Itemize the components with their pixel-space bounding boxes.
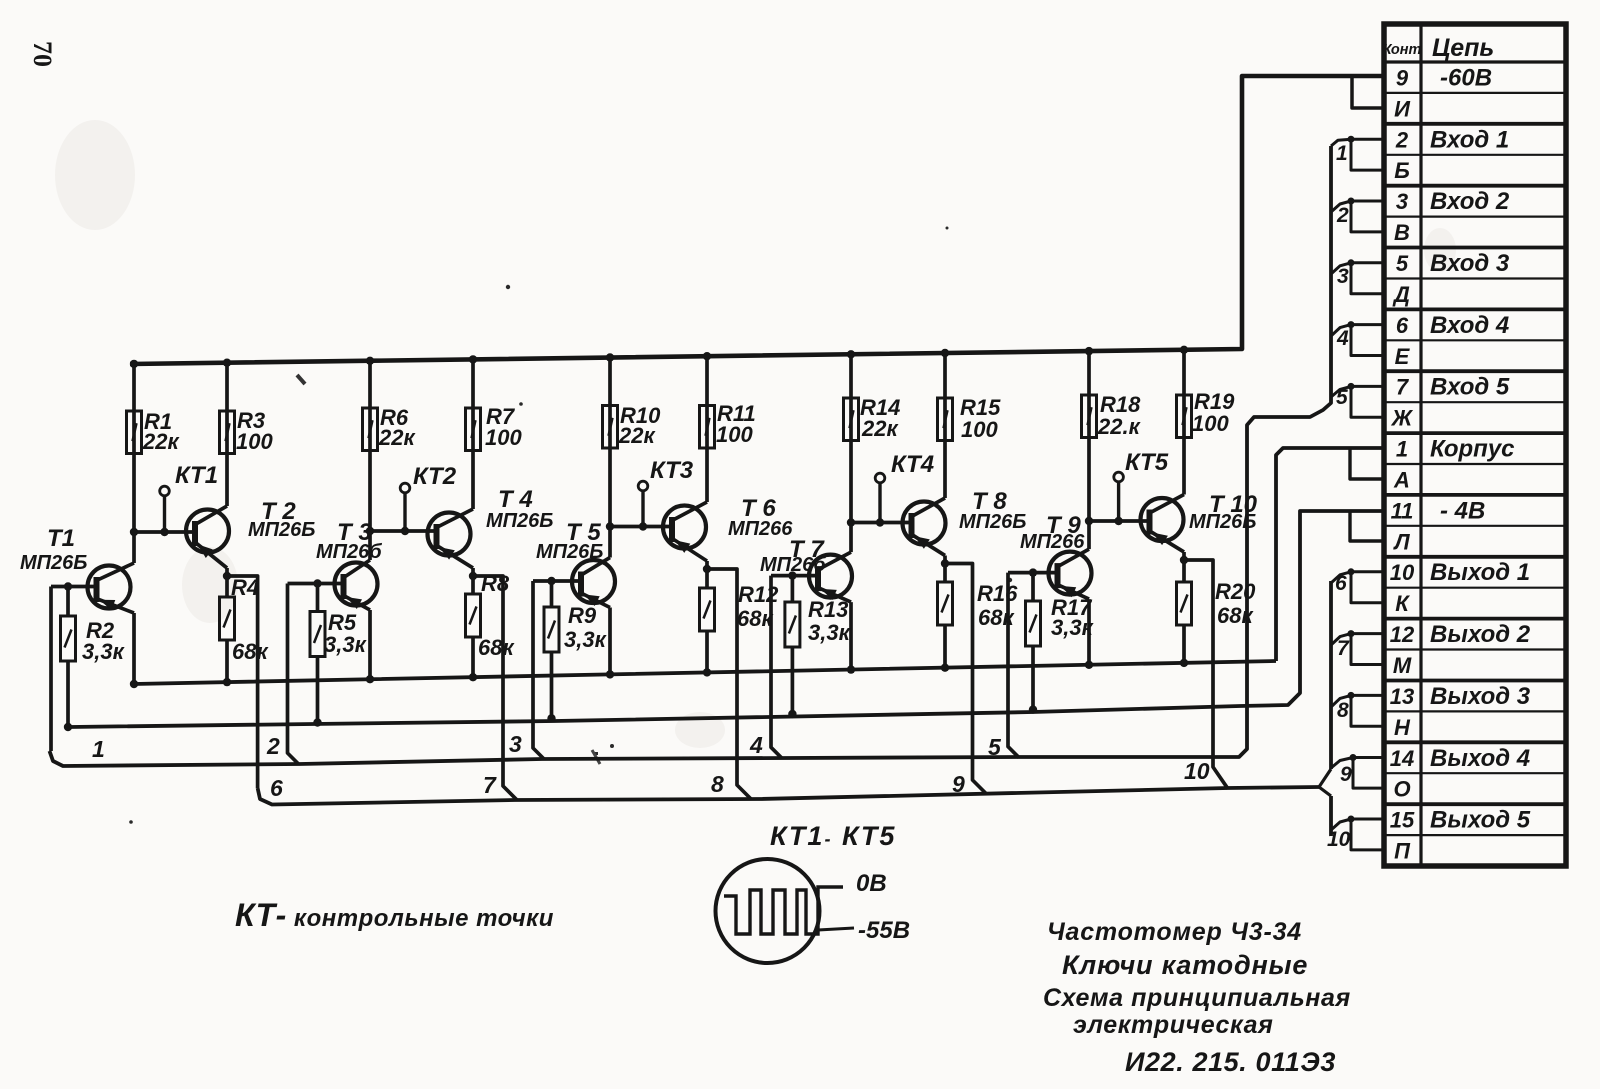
bracket pins pair 9 xyxy=(1353,756,1384,759)
node dot Т3 emitter / emitter bus xyxy=(366,675,374,683)
wire input 1 drop xyxy=(49,587,53,752)
transistor Т2 МП26Б xyxy=(186,510,229,553)
wire hook 10 to connector xyxy=(1331,819,1351,830)
svg-text:22к: 22к xyxy=(378,425,416,450)
node dot R17 / bias bus xyxy=(1029,705,1037,713)
transistor Т6 МП26Б xyxy=(663,506,706,549)
table row line xyxy=(1384,587,1566,589)
svg-text:68к: 68к xyxy=(478,635,515,660)
node dot R/base Т2 xyxy=(130,528,138,536)
scan artifacts (not labeled further) xyxy=(55,120,1456,748)
table row line xyxy=(1384,184,1566,188)
svg-text:8: 8 xyxy=(1337,699,1349,722)
wire hook 7 to connector xyxy=(1331,634,1351,645)
svg-text:14: 14 xyxy=(1390,746,1414,771)
resistor R19 100 xyxy=(1182,350,1186,495)
node dot flag 8 xyxy=(1348,692,1355,699)
svg-text:В: В xyxy=(1394,220,1410,245)
transistor Т8 МП26Б xyxy=(903,502,946,545)
node dot bus/R10 xyxy=(606,353,614,361)
svg-text:Выход 5: Выход 5 xyxy=(1430,807,1531,834)
connector table frame xyxy=(1384,24,1566,866)
svg-text:10: 10 xyxy=(1184,758,1210,784)
svg-text:22к: 22к xyxy=(861,416,899,441)
svg-text:Л: Л xyxy=(1392,529,1410,554)
fan-out triangle xyxy=(1319,769,1331,796)
svg-text:68к: 68к xyxy=(232,639,269,664)
wire -60V to pin I xyxy=(1352,76,1384,108)
svg-text:10: 10 xyxy=(1327,828,1351,851)
svg-text:М: М xyxy=(1393,653,1412,678)
svg-text:МП266: МП266 xyxy=(1020,531,1085,553)
wire hook 5 to connector xyxy=(1331,386,1351,397)
svg-text:МП26Б: МП26Б xyxy=(959,511,1026,533)
node dot Т8 emitter junction xyxy=(941,559,949,567)
svg-text:1: 1 xyxy=(1396,437,1408,462)
node dot Т7 emitter / emitter bus xyxy=(847,665,855,673)
svg-text:3,3к: 3,3к xyxy=(324,632,368,657)
wire output 4 branch xyxy=(945,564,987,795)
wire output 2 branch xyxy=(473,576,517,800)
wire output 3 branch xyxy=(707,569,751,799)
node dot R/base Т4 xyxy=(366,527,374,535)
node dot flag 2 xyxy=(1348,198,1355,205)
svg-text:6: 6 xyxy=(270,775,283,801)
svg-text:1: 1 xyxy=(1336,142,1348,165)
svg-text:5: 5 xyxy=(1336,386,1348,409)
table row line xyxy=(1384,154,1566,156)
svg-text:КТ5: КТ5 xyxy=(1125,449,1169,476)
wire input 4 drop xyxy=(771,576,782,759)
bracket pins pair 1 xyxy=(1351,138,1384,141)
wire bias bus to -4V xyxy=(70,511,1384,727)
bracket pins pair 3 xyxy=(1351,261,1384,264)
svg-text:7: 7 xyxy=(483,772,497,798)
svg-text:7: 7 xyxy=(1337,637,1350,660)
bracket pins pair 10 xyxy=(1351,818,1384,821)
svg-text:70: 70 xyxy=(28,41,57,67)
wire output riser xyxy=(1329,581,1333,769)
node dot Т4 emitter junction xyxy=(469,572,477,580)
wire base lead Т2 xyxy=(134,530,195,534)
svg-text:3: 3 xyxy=(509,731,522,757)
table row line xyxy=(1384,277,1566,279)
svg-text:Схема принципиальная: Схема принципиальная xyxy=(1043,984,1351,1012)
svg-text:Выход 2: Выход 2 xyxy=(1430,621,1531,648)
bracket pins pair 5 xyxy=(1351,385,1384,388)
svg-text:И22. 215. 011Э3: И22. 215. 011Э3 xyxy=(1125,1047,1336,1077)
svg-text:100: 100 xyxy=(961,417,998,442)
svg-text:Т 4: Т 4 xyxy=(498,486,533,513)
svg-text:1: 1 xyxy=(92,736,105,762)
transistor Т1 МП26Б xyxy=(88,566,131,609)
table row line xyxy=(1384,617,1566,621)
test point КТ3 xyxy=(641,491,644,527)
svg-text:68к: 68к xyxy=(978,605,1015,630)
svg-text:15: 15 xyxy=(1390,808,1415,833)
table row line xyxy=(1384,216,1566,218)
table row line xyxy=(1384,463,1566,465)
bracket pins pair 4 xyxy=(1351,323,1384,326)
wire base line Т7 xyxy=(771,574,818,578)
svg-text:Конт: Конт xyxy=(1383,42,1422,58)
svg-text:100: 100 xyxy=(236,429,273,454)
svg-text:10: 10 xyxy=(1390,560,1415,585)
node dot bus/R11 xyxy=(703,352,711,360)
svg-text:68к: 68к xyxy=(737,606,774,631)
svg-text:22к: 22к xyxy=(618,423,656,448)
transistor Т9 МП26Б xyxy=(1049,552,1092,595)
svg-text:7: 7 xyxy=(1396,375,1410,400)
resistor R1 22к xyxy=(132,364,136,532)
svg-text:8: 8 xyxy=(711,771,724,797)
test point КТ2 xyxy=(403,493,406,531)
table row line xyxy=(1384,710,1566,712)
resistor R4 68к xyxy=(225,576,229,597)
node dot R2 / bias bus xyxy=(64,723,72,731)
svg-text:100: 100 xyxy=(1192,411,1229,436)
svg-text:КТ3: КТ3 xyxy=(650,457,694,484)
wire base lead Т6 xyxy=(610,525,672,529)
wire base line Т3 xyxy=(288,582,344,586)
node dot Т9 emitter / emitter bus xyxy=(1085,661,1093,669)
svg-text:О: О xyxy=(1393,777,1410,802)
node dot flag 4 xyxy=(1348,321,1355,328)
svg-text:R20: R20 xyxy=(1215,579,1256,604)
node dot flag 1 xyxy=(1348,136,1355,143)
svg-text:6: 6 xyxy=(1396,313,1409,338)
svg-text:Вход 1: Вход 1 xyxy=(1430,126,1509,153)
resistor R12 68к xyxy=(705,569,709,588)
svg-text:3,3к: 3,3к xyxy=(564,627,608,652)
svg-text:22.к: 22.к xyxy=(1097,414,1142,439)
svg-text:КТ1: КТ1 xyxy=(175,462,218,489)
node dot R16 / emitter bus xyxy=(941,664,949,672)
svg-text:100: 100 xyxy=(485,425,522,450)
svg-text:Е: Е xyxy=(1395,344,1411,369)
test point КТ1 xyxy=(163,496,166,532)
node dot flag 5 xyxy=(1348,383,1355,390)
svg-text:3,3к: 3,3к xyxy=(1051,615,1095,640)
svg-text:22к: 22к xyxy=(142,429,180,454)
svg-text:5: 5 xyxy=(1396,251,1409,276)
table row line xyxy=(1384,802,1566,806)
svg-text:Ж: Ж xyxy=(1391,406,1414,431)
svg-text:4: 4 xyxy=(749,732,763,758)
svg-text:Выход 4: Выход 4 xyxy=(1430,745,1530,772)
node dot R/base Т6 xyxy=(606,522,614,530)
wire hook 4 to connector xyxy=(1331,325,1351,336)
svg-text:-60В: -60В xyxy=(1440,65,1492,92)
svg-text:А: А xyxy=(1393,468,1410,493)
svg-text:3,3к: 3,3к xyxy=(808,620,852,645)
svg-text:12: 12 xyxy=(1390,622,1415,647)
svg-text:R16: R16 xyxy=(977,581,1018,606)
wire input 2 drop xyxy=(288,584,299,765)
transistor Т4 МП26Б xyxy=(428,513,471,556)
wire input 3 drop xyxy=(533,581,544,759)
node dot R20 / emitter bus xyxy=(1180,659,1188,667)
wire input trunk (линия групповой связи 1-5) xyxy=(50,146,1332,766)
node dot bus/R18 xyxy=(1085,347,1093,355)
node dot flag 6 xyxy=(1348,568,1355,575)
transistor Т3 МП26Б xyxy=(335,563,378,606)
svg-text:И: И xyxy=(1394,96,1411,121)
svg-text:6: 6 xyxy=(1335,572,1347,595)
node dot R/base Т10 xyxy=(1085,517,1093,525)
svg-text:9: 9 xyxy=(1340,763,1352,786)
table row line xyxy=(1384,401,1566,403)
wire hook 3 to connector xyxy=(1331,263,1351,274)
node dot bus/R15 xyxy=(941,349,949,357)
svg-text:Д: Д xyxy=(1392,282,1410,307)
node dot Т5 emitter / emitter bus xyxy=(606,670,614,678)
node dot flag 3 xyxy=(1348,259,1355,266)
svg-text:МП266: МП266 xyxy=(728,518,793,540)
svg-text:0В: 0В xyxy=(856,870,887,897)
svg-text:2: 2 xyxy=(1336,204,1349,227)
table row line xyxy=(1384,493,1566,497)
resistor R3 100 xyxy=(225,363,229,506)
node dot flag 7 xyxy=(1348,630,1355,637)
node dot flag 10 xyxy=(1348,816,1355,823)
resistor R10 22к xyxy=(608,358,612,527)
wire base line Т9 xyxy=(1008,571,1058,575)
wire output 1 branch xyxy=(227,576,258,788)
svg-text:2: 2 xyxy=(1395,127,1409,152)
node dot Т6 emitter junction xyxy=(703,565,711,573)
table row line xyxy=(1384,92,1566,94)
resistor R20 68к xyxy=(1182,560,1186,582)
wire input 5 drop xyxy=(1008,573,1019,758)
svg-text:Цепь: Цепь xyxy=(1432,34,1494,62)
svg-text:МП26Б: МП26Б xyxy=(536,541,603,563)
svg-text:Выход 1: Выход 1 xyxy=(1430,559,1530,586)
svg-text:МП26Б: МП26Б xyxy=(486,510,553,532)
wire -4V bracket to pin Л xyxy=(1350,511,1384,541)
svg-text:R13: R13 xyxy=(808,597,848,622)
resistor R15 100 xyxy=(943,353,947,498)
svg-text:R9: R9 xyxy=(568,603,597,628)
resistor R11 100 xyxy=(705,356,709,502)
bracket pins pair 2 xyxy=(1351,200,1384,203)
table row line xyxy=(1384,369,1566,373)
node dot R12 / emitter bus xyxy=(703,668,711,676)
resistor R9 3,3к xyxy=(550,581,554,607)
resistor R2 3,3к xyxy=(66,587,70,617)
node dot Т1 emitter / emitter bus xyxy=(130,680,138,688)
resistor R17 3,3к xyxy=(1031,573,1035,601)
svg-text:3,3к: 3,3к xyxy=(82,639,126,664)
node dot R4 / emitter bus xyxy=(223,678,231,686)
svg-text:КТ1- КТ5: КТ1- КТ5 xyxy=(770,821,896,851)
wire output trunk (6-10) xyxy=(258,787,1319,805)
wire hook 8 to connector xyxy=(1331,695,1351,707)
wire hook 6 to connector xyxy=(1331,572,1351,583)
node dot flag 9 xyxy=(1350,754,1357,761)
svg-text:Частотомер Ч3-34: Частотомер Ч3-34 xyxy=(1047,918,1302,946)
svg-text:Выход 3: Выход 3 xyxy=(1430,683,1531,710)
node dot bus/R1 xyxy=(130,360,138,368)
test point КТ4 xyxy=(878,483,881,523)
svg-text:13: 13 xyxy=(1390,684,1414,709)
resistor R5 3,3к xyxy=(316,584,320,612)
table row line xyxy=(1384,307,1566,311)
svg-text:Вход 3: Вход 3 xyxy=(1430,250,1510,277)
svg-text:Т1: Т1 xyxy=(47,525,75,552)
wire emitter bus xyxy=(134,661,1276,684)
node dot Т10 emitter junction xyxy=(1180,556,1188,564)
wire Корпус bracket to pin А xyxy=(1350,448,1384,479)
wire base lead Т10 xyxy=(1089,519,1150,523)
svg-text:П: П xyxy=(1394,839,1411,864)
svg-text:Вход 2: Вход 2 xyxy=(1430,188,1510,215)
svg-text:КТ2: КТ2 xyxy=(413,463,457,490)
table row line xyxy=(1384,648,1566,650)
wire 0V (Корпус) riser xyxy=(1276,448,1384,661)
svg-text:3: 3 xyxy=(1396,189,1408,214)
node dot bus/R19 xyxy=(1180,346,1188,354)
wire hook 2 to connector xyxy=(1331,201,1351,212)
svg-text:КТ4: КТ4 xyxy=(891,451,934,478)
resistor R13 3,3к xyxy=(791,576,795,602)
node dot R/base Т8 xyxy=(847,518,855,526)
svg-text:R12: R12 xyxy=(738,582,779,607)
table row line xyxy=(1384,772,1566,774)
transistor Т5 МП26Б xyxy=(572,560,615,603)
transistor Т7 МП26Б xyxy=(809,555,852,598)
resistor R14 22к xyxy=(849,354,853,522)
svg-text:2: 2 xyxy=(266,733,280,759)
svg-text:9: 9 xyxy=(1396,66,1409,91)
svg-text:Корпус: Корпус xyxy=(1430,436,1515,463)
svg-text:Н: Н xyxy=(1394,715,1411,740)
node dot bus/R7 xyxy=(469,355,477,363)
node dot Т2 emitter junction xyxy=(223,572,231,580)
svg-text:К: К xyxy=(1395,591,1410,616)
svg-text:3: 3 xyxy=(1337,265,1349,288)
svg-text:электрическая: электрическая xyxy=(1073,1011,1273,1039)
node dot R9 / bias bus xyxy=(547,714,555,722)
table row line xyxy=(1384,555,1566,559)
wire base line Т1 xyxy=(51,585,97,589)
svg-text:- 4В: - 4В xyxy=(1440,497,1485,524)
wire base lead Т4 xyxy=(370,529,437,533)
table row line xyxy=(1384,525,1566,527)
wire output 5 branch xyxy=(1184,560,1228,789)
svg-text:МП26Б: МП26Б xyxy=(20,552,87,574)
table row line xyxy=(1384,339,1566,341)
svg-text:Вход 4: Вход 4 xyxy=(1430,312,1509,339)
transistor Т10 МП26Б xyxy=(1141,498,1184,541)
svg-text:4: 4 xyxy=(1336,327,1349,350)
table row line xyxy=(1384,834,1566,836)
node dot R13 / bias bus xyxy=(788,710,796,718)
test point КТ5 xyxy=(1117,482,1120,521)
svg-text:11: 11 xyxy=(1391,498,1414,523)
wire hook 1 to connector xyxy=(1331,139,1351,146)
svg-text:Вход 5: Вход 5 xyxy=(1430,374,1510,401)
svg-text:-55В: -55В xyxy=(858,917,910,944)
svg-text:Ключи катодные: Ключи катодные xyxy=(1062,950,1308,980)
svg-text:100: 100 xyxy=(716,422,753,447)
wire hook 9 to connector xyxy=(1331,758,1353,769)
resistor R6 22к xyxy=(368,361,372,531)
svg-text:МП26Б: МП26Б xyxy=(248,519,315,541)
svg-text:R4: R4 xyxy=(231,575,259,600)
bracket pins pair 6 xyxy=(1351,570,1384,573)
node dot bus/R6 xyxy=(366,357,374,365)
resistor R8 68к xyxy=(471,576,475,594)
svg-text:МП26б: МП26б xyxy=(316,541,382,563)
resistor R18 22к xyxy=(1087,351,1091,521)
table row line xyxy=(1384,122,1566,126)
wire base lead Т8 xyxy=(851,521,912,525)
node dot R5 / bias bus xyxy=(313,718,321,726)
bracket pins pair 8 xyxy=(1351,694,1384,697)
svg-text:Б: Б xyxy=(1394,158,1410,183)
wire base line Т5 xyxy=(533,579,581,583)
table row line xyxy=(1384,431,1566,435)
wire -60V top bus xyxy=(130,76,1384,364)
resistor R7 100 xyxy=(471,359,475,509)
table row line xyxy=(1384,679,1566,683)
0V lead xyxy=(818,928,854,930)
node dot bus/R14 xyxy=(847,350,855,358)
table row line xyxy=(1384,740,1566,744)
node dot R8 / emitter bus xyxy=(469,673,477,681)
node dot bus/R3 xyxy=(223,359,231,367)
resistor R16 68к xyxy=(943,564,947,583)
table row line xyxy=(1384,246,1566,250)
bracket pins pair 7 xyxy=(1351,632,1384,635)
